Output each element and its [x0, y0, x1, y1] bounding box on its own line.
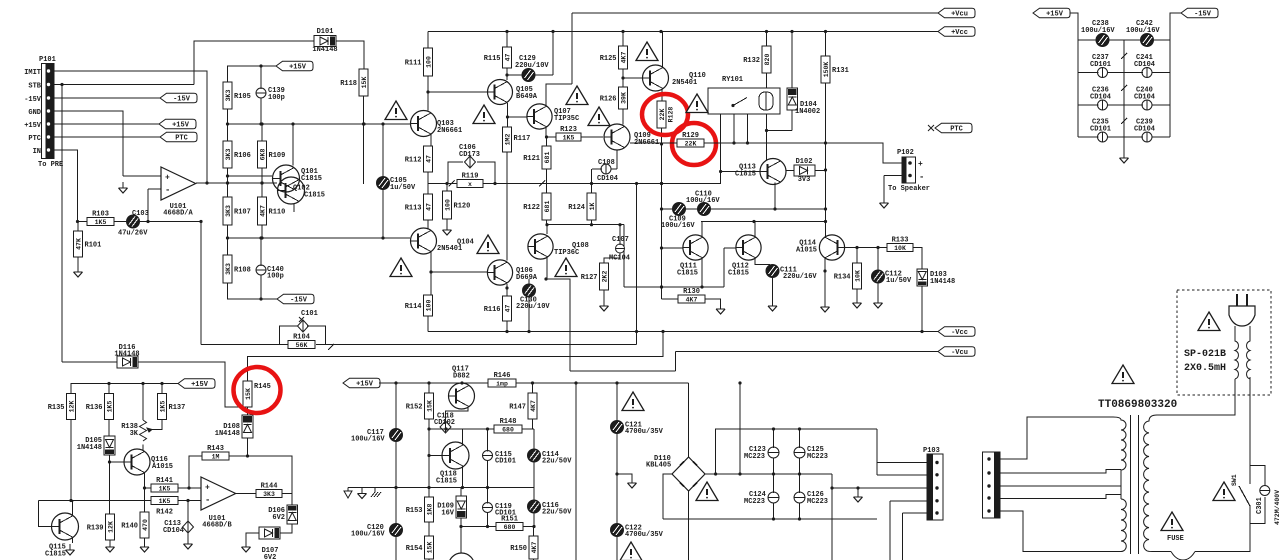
wire Q106 emitter — [506, 284, 508, 296]
wire Q108 collector — [546, 225, 548, 234]
wire C129 row — [507, 74, 553, 76]
svg-text:47: 47 — [504, 54, 511, 62]
wire switch up to filter — [1249, 377, 1251, 466]
resistor R125 — [600, 46, 628, 69]
svg-text:3K: 3K — [130, 430, 139, 438]
wire R147 bot — [533, 419, 535, 429]
wire R151 right — [523, 526, 534, 528]
wire R115 bot — [506, 68, 508, 80]
wire P102 gnd — [883, 176, 885, 200]
wire C107-R127 — [604, 253, 620, 263]
svg-text:150K: 150K — [823, 62, 830, 78]
svg-text:-15V: -15V — [290, 297, 308, 305]
svg-text:R142: R142 — [156, 509, 173, 517]
svg-text:R125: R125 — [600, 55, 617, 63]
svg-text:TIP36C: TIP36C — [554, 249, 579, 257]
wire R124 bot — [591, 220, 593, 225]
wire D104 top — [791, 32, 793, 89]
wire C140 bot — [260, 275, 262, 299]
wire D102 left — [786, 170, 794, 172]
capacitor C121 — [611, 421, 664, 437]
wire Q118 emitter — [462, 467, 464, 488]
svg-text:To Speaker: To Speaker — [888, 185, 930, 193]
svg-text:100p: 100p — [267, 273, 284, 281]
wire feedback vert — [200, 222, 202, 345]
svg-text:R150: R150 — [510, 545, 527, 553]
warning triangle near Q103 — [385, 101, 407, 120]
junction — [362, 122, 365, 125]
wire opamp out — [196, 182, 277, 184]
op-amp U101/A — [161, 167, 196, 218]
svg-text:22K: 22K — [659, 109, 666, 121]
junction — [506, 115, 509, 118]
wire C114 bot — [533, 462, 535, 488]
svg-text:STB: STB — [28, 83, 41, 91]
junction — [107, 382, 110, 385]
wire C113 bot — [187, 533, 189, 538]
wire R120 top — [446, 184, 448, 192]
wire bridge top col — [688, 383, 690, 457]
capacitor C111 — [766, 265, 817, 282]
wire D107 left — [246, 533, 259, 541]
svg-text:100u/16V: 100u/16V — [1126, 27, 1160, 35]
svg-text:MC223: MC223 — [807, 498, 828, 506]
svg-text:1K5: 1K5 — [106, 401, 113, 413]
junction — [143, 486, 146, 489]
wire Q111 emitter — [701, 258, 703, 287]
svg-text:1M2: 1M2 — [504, 134, 511, 146]
svg-text:R112: R112 — [405, 157, 422, 165]
svg-text:-15V: -15V — [173, 96, 191, 104]
ground below D107 — [242, 541, 251, 552]
wire R147 top — [532, 383, 534, 393]
resistor R127 — [581, 263, 609, 290]
junction — [615, 472, 618, 475]
junction — [445, 182, 448, 185]
junction — [660, 246, 663, 249]
svg-text:100u/16V: 100u/16V — [351, 436, 385, 444]
wire D102 right — [815, 170, 826, 172]
resistor R126 — [600, 87, 628, 109]
power flag +15V mid — [343, 378, 380, 388]
transistor Q112 — [736, 235, 761, 260]
wire C119 top — [487, 488, 489, 503]
wire C129 up — [552, 32, 554, 76]
wire C121 top — [616, 383, 618, 421]
wire row 526.5 — [461, 526, 496, 528]
junction — [660, 207, 663, 210]
wire Q107 emitter — [546, 127, 556, 137]
junction — [260, 122, 263, 125]
wire Q110 collector — [662, 32, 664, 68]
svg-text:6V2: 6V2 — [264, 554, 277, 560]
svg-text:R132: R132 — [743, 57, 760, 65]
wire C117 top — [395, 383, 397, 429]
diode D104 — [787, 88, 798, 110]
wire C120 top — [395, 488, 397, 525]
svg-text:P103: P103 — [923, 447, 940, 455]
ground below R127 — [600, 300, 609, 311]
connector P102 — [888, 149, 930, 193]
svg-text:680: 680 — [502, 426, 514, 433]
svg-text:47u/26V: 47u/26V — [118, 230, 148, 238]
svg-text:R131: R131 — [832, 67, 849, 75]
svg-text:R129: R129 — [682, 132, 699, 140]
transistor Q119 (cut) — [449, 553, 475, 560]
wire R136 top — [108, 384, 110, 394]
junction — [714, 472, 717, 475]
wire bank right — [1170, 13, 1181, 137]
svg-text:820: 820 — [764, 54, 771, 66]
wire R129 right — [704, 143, 902, 163]
junction jog row1 — [449, 181, 455, 187]
resistor R129 — [677, 132, 704, 147]
wire Vcu drop — [571, 13, 573, 84]
wire C111 bot — [772, 278, 774, 301]
svg-text:+15V: +15V — [356, 381, 374, 389]
ground below R101 — [74, 266, 83, 277]
svg-text:C107: C107 — [612, 236, 629, 244]
ground bank gnd — [1120, 152, 1129, 163]
resistor R121 — [523, 146, 551, 169]
wire speaker row 143 — [630, 142, 677, 144]
transistor Q109 — [604, 124, 630, 150]
wire R121 bot — [546, 169, 548, 184]
svg-text:+: + — [205, 483, 210, 492]
svg-text:-: - — [919, 173, 924, 183]
junction jog fb — [328, 344, 334, 350]
resistor R148 — [494, 418, 522, 433]
wire -Vcc rail — [428, 331, 938, 333]
wire Q101 base row — [228, 175, 273, 177]
svg-text:1M: 1M — [212, 453, 220, 460]
svg-text:R152: R152 — [406, 404, 423, 412]
svg-text:R126: R126 — [600, 96, 617, 104]
wire P103 pin5 col — [902, 513, 904, 560]
ground below R140 — [140, 541, 149, 552]
resistor R108 — [223, 255, 251, 283]
svg-text:C301: C301 — [1256, 497, 1264, 514]
svg-text:220u/10V: 220u/10V — [516, 303, 550, 311]
svg-text:+: + — [918, 160, 923, 169]
ground below R139 — [106, 541, 115, 552]
wire bus 487.5 — [348, 487, 534, 489]
ground slashes — [371, 488, 381, 498]
wire R133 right — [913, 248, 922, 270]
wire base row y124 — [228, 123, 411, 125]
warning triangle above FUSE — [1161, 512, 1183, 531]
wire R112 bot — [427, 172, 429, 184]
junction — [259, 64, 262, 67]
wire bridge right — [705, 473, 832, 475]
capacitor C113 — [183, 521, 194, 533]
transistor Q115 — [52, 513, 79, 540]
junction — [141, 382, 144, 385]
svg-text:MC223: MC223 — [744, 498, 765, 506]
junction — [459, 525, 462, 528]
resistor R103 — [87, 211, 114, 226]
capacitor C124 — [744, 490, 779, 506]
wire Q108 emitter — [547, 258, 570, 372]
junction — [226, 181, 229, 184]
power flag -Vcu — [938, 347, 975, 357]
svg-text:D102: D102 — [796, 158, 813, 166]
svg-text:47K: 47K — [75, 238, 82, 250]
junction — [660, 285, 663, 288]
warning triangle left of SW1 — [1213, 482, 1235, 501]
junction — [621, 30, 624, 33]
wire R140 bot — [144, 538, 146, 543]
wire R136-D105 — [108, 420, 110, 437]
svg-text:15K: 15K — [245, 388, 252, 400]
svg-text:2N5401: 2N5401 — [437, 245, 462, 253]
warning triangle near R125 — [636, 42, 658, 61]
wire Q116 base — [110, 461, 125, 463]
junction — [824, 168, 827, 171]
svg-text:15K: 15K — [426, 400, 433, 412]
wire Q117 emitter — [446, 408, 469, 421]
wire C105 col — [382, 124, 384, 177]
warning triangle left of C121 — [622, 392, 644, 411]
svg-text:R148: R148 — [500, 418, 517, 426]
transistor Q104 — [411, 228, 437, 254]
wire R125-R126 — [622, 69, 624, 87]
wire P104 pin4 — [1000, 495, 1121, 499]
svg-text:681: 681 — [544, 201, 551, 213]
power flag +15V right of R105 — [276, 61, 313, 71]
svg-text:100: 100 — [425, 56, 432, 68]
capacitor C140 — [256, 263, 284, 281]
wire +15V rail to R105 — [228, 66, 277, 82]
junction — [635, 330, 638, 333]
wire Q112 base col — [723, 248, 725, 287]
svg-text:6V2: 6V2 — [272, 514, 285, 522]
junction — [362, 122, 365, 125]
svg-text:4K7: 4K7 — [620, 52, 627, 64]
capacitor C130 — [516, 284, 550, 311]
wire R121 top — [546, 137, 548, 146]
wire C107 top — [619, 225, 621, 244]
wire R143 right — [229, 456, 292, 494]
junction — [855, 246, 858, 249]
red circle around R129 — [672, 123, 716, 165]
ground below C111 — [768, 300, 777, 311]
svg-text:CD104: CD104 — [1134, 94, 1155, 102]
wire R109 top — [261, 124, 263, 141]
junction — [186, 499, 189, 502]
red circle around R128 — [642, 94, 688, 135]
wire R131 top — [825, 32, 827, 57]
svg-text:1K5: 1K5 — [159, 498, 171, 505]
capacitor C114 — [528, 449, 573, 466]
wire STB up — [194, 41, 314, 85]
svg-text:2X0.5mH: 2X0.5mH — [1184, 363, 1226, 374]
svg-text:3K3: 3K3 — [225, 90, 232, 102]
wire R126 bot — [622, 109, 624, 125]
junction — [798, 517, 801, 520]
wire R143 left — [189, 456, 202, 488]
wire caps col B — [799, 429, 801, 519]
wire P103 pin4 — [890, 500, 927, 502]
connector P103 — [923, 447, 943, 520]
wire R113-Q104 — [427, 220, 429, 230]
wire Q115 base loop — [39, 501, 52, 527]
resistor R139 — [87, 514, 115, 540]
wire C139 top — [260, 66, 262, 88]
svg-text:C103: C103 — [132, 210, 149, 218]
transistor Q118 — [442, 442, 469, 469]
svg-text:PTC: PTC — [950, 126, 963, 134]
wire R118 bottom — [363, 96, 365, 184]
svg-text:1u/50V: 1u/50V — [390, 184, 416, 192]
wire Q114 emitter — [824, 259, 826, 302]
svg-text:4668D/B: 4668D/B — [202, 522, 232, 530]
svg-text:TT0869803320: TT0869803320 — [1098, 399, 1177, 411]
svg-text:100u/16V: 100u/16V — [686, 197, 720, 205]
junction — [590, 223, 593, 226]
junction — [246, 454, 249, 457]
switch SW1 — [1231, 466, 1250, 524]
svg-text:15K: 15K — [426, 542, 433, 554]
svg-text:4K7: 4K7 — [530, 400, 537, 412]
svg-text:1K5: 1K5 — [95, 219, 107, 226]
ground below Q114 — [821, 301, 830, 312]
svg-text:R115: R115 — [484, 55, 501, 63]
wire Q113 collector — [766, 131, 768, 161]
wire relay pin to Q113 base — [720, 114, 722, 184]
junction — [505, 286, 508, 289]
ground below P102 — [880, 197, 889, 208]
capacitor C101 — [298, 310, 318, 332]
wire R144 right — [282, 494, 292, 506]
wire R101 bot — [77, 257, 79, 266]
wire C116 top — [533, 488, 535, 501]
svg-text:+15V: +15V — [289, 64, 307, 72]
junction — [486, 427, 489, 430]
junction — [531, 381, 534, 384]
resistor R137 — [158, 394, 186, 420]
diode D103 — [917, 269, 928, 286]
wire R135 bottom long — [71, 420, 73, 503]
svg-text:D101: D101 — [317, 28, 334, 36]
wire Q104 emitter — [430, 252, 432, 295]
transistor Q107 — [527, 104, 552, 129]
junction — [621, 76, 624, 79]
wire C117 bot — [395, 441, 397, 488]
capacitor C301 branch — [1250, 466, 1281, 525]
capacitor C125 — [794, 445, 828, 461]
junction — [60, 83, 63, 86]
wire R154 bot — [428, 559, 430, 560]
svg-text:12K: 12K — [68, 401, 75, 413]
wire R106-R107 — [227, 168, 229, 197]
svg-text:1u/50V: 1u/50V — [886, 277, 912, 285]
connector P104 — [983, 452, 1001, 518]
svg-text:FUSE: FUSE — [1167, 535, 1184, 543]
wire R107-R108 — [227, 225, 229, 255]
svg-text:16V: 16V — [441, 510, 454, 518]
junction — [856, 486, 859, 489]
svg-text:C1815: C1815 — [728, 270, 749, 278]
junction — [226, 174, 229, 177]
resistor R146 — [488, 372, 516, 387]
wire Q103 emitter — [430, 134, 432, 146]
junction jog row2 — [539, 181, 545, 187]
junction — [660, 182, 663, 185]
svg-text:22u/50V: 22u/50V — [542, 458, 572, 466]
power flag +Vcc — [938, 27, 975, 37]
wire R114 bot — [427, 316, 429, 332]
resistor R141 — [151, 477, 178, 492]
wire bridge left — [663, 474, 672, 519]
ground triangle left — [344, 491, 352, 498]
capacitor C240 — [1134, 87, 1155, 111]
transistor Q103 — [411, 111, 437, 137]
wire IN to R103 — [78, 221, 88, 223]
resistor R145 — [243, 381, 271, 407]
wire bank row 1 — [1078, 72, 1170, 74]
wire R111-Q103 — [427, 76, 429, 111]
svg-text:2N5401: 2N5401 — [672, 79, 697, 87]
wire box right — [307, 326, 326, 345]
red circle around R145 — [234, 367, 281, 413]
wire R109-R110 — [261, 168, 263, 197]
wire C108 row — [592, 168, 617, 170]
wire IMIT — [54, 71, 207, 183]
resistor R140 — [121, 512, 149, 538]
wire coil bottom — [767, 114, 793, 131]
wire Q111 collector — [701, 222, 703, 238]
resistor R113 — [405, 194, 433, 220]
wire Q114 base row — [845, 247, 887, 249]
junction — [226, 122, 229, 125]
wire relay contact 1 — [733, 114, 735, 143]
svg-text:R127: R127 — [581, 274, 598, 282]
capacitor C119 — [483, 501, 517, 518]
capacitor C118 — [440, 421, 451, 433]
wire row 209 — [662, 208, 826, 210]
junction — [427, 427, 430, 430]
svg-text:10K: 10K — [894, 245, 906, 252]
diode D108 — [242, 415, 253, 438]
wire Q112 emitter — [755, 258, 770, 265]
capacitor C123 — [744, 445, 779, 461]
junction — [660, 285, 663, 288]
wire Q113 emitter — [774, 183, 776, 210]
junction — [69, 499, 72, 502]
transistor Q114 — [819, 235, 844, 260]
filter coil right — [1247, 326, 1250, 379]
capacitor C110 — [686, 191, 720, 216]
svg-text:SW1: SW1 — [1231, 474, 1238, 486]
svg-text:P101: P101 — [39, 56, 56, 64]
wire D104 bot — [791, 110, 793, 131]
resistor R132 — [743, 46, 771, 73]
wire C112 top — [877, 248, 879, 271]
capacitor C242 — [1126, 20, 1160, 47]
wire P103 pin3 — [832, 487, 927, 489]
wire Q106 base row — [431, 271, 487, 273]
junction — [772, 427, 775, 430]
transistor Q116 — [124, 449, 150, 475]
junction — [259, 297, 262, 300]
svg-text:1N4148: 1N4148 — [215, 430, 240, 438]
svg-text:39K: 39K — [620, 92, 627, 104]
svg-text:CD104: CD104 — [1134, 61, 1155, 69]
svg-text:R117: R117 — [514, 135, 531, 143]
capacitor C105 — [377, 177, 417, 193]
capacitor C239 — [1134, 119, 1155, 143]
